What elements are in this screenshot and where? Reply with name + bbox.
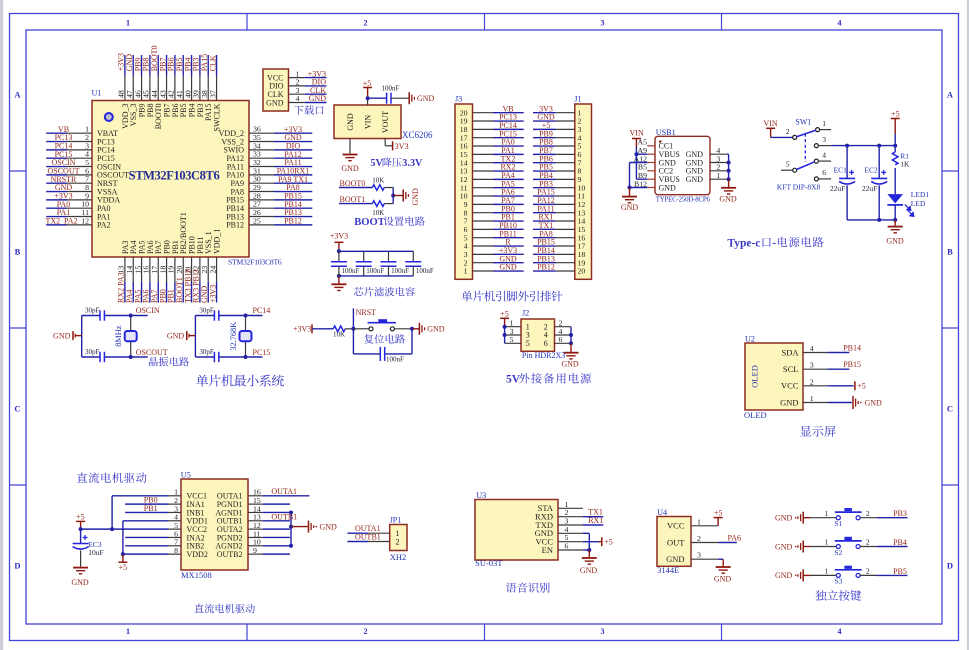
svg-text:BOOT: BOOT — [354, 217, 385, 228]
title 独立按键 — [815, 590, 861, 601]
svg-text:25: 25 — [253, 216, 261, 225]
capacitor 100nF — [338, 251, 340, 262]
wire — [504, 327, 506, 344]
svg-text:GND: GND — [167, 331, 185, 340]
junction — [587, 548, 591, 552]
wire — [195, 315, 214, 317]
wire — [493, 195, 524, 197]
wire — [570, 343, 572, 352]
svg-text:1: 1 — [126, 627, 130, 636]
svg-text:NRST: NRST — [356, 308, 377, 317]
pin 5 OSCIN — [67, 166, 92, 168]
wire — [718, 558, 723, 560]
svg-text:5V: 5V — [506, 374, 521, 386]
wire — [894, 205, 896, 220]
svg-text:U1: U1 — [92, 89, 102, 98]
wire — [385, 353, 412, 355]
svg-text:GND: GND — [714, 575, 732, 584]
resistor R1 1K — [892, 152, 898, 165]
svg-text:10uF: 10uF — [88, 548, 103, 557]
wire — [263, 495, 310, 497]
junction — [727, 177, 731, 181]
wire — [122, 521, 124, 554]
svg-text:22uF: 22uF — [862, 184, 877, 193]
svg-text:VCC: VCC — [667, 521, 685, 531]
wire — [877, 546, 908, 548]
pin 12 PA2 — [67, 224, 92, 226]
svg-text:OSCIN: OSCIN — [136, 306, 160, 315]
svg-text:24: 24 — [208, 266, 217, 274]
crystal 8MHz — [130, 316, 132, 358]
wire — [263, 536, 290, 538]
wire — [583, 541, 599, 543]
capacitor 100nF — [379, 347, 381, 361]
svg-text:5: 5 — [526, 339, 530, 348]
svg-text:+3V3: +3V3 — [293, 324, 311, 333]
wire — [810, 517, 836, 519]
wire — [191, 55, 193, 76]
junction — [845, 144, 849, 148]
wire — [305, 102, 327, 104]
wire — [263, 528, 290, 530]
svg-text:30pF: 30pF — [85, 348, 100, 356]
svg-text:S3: S3 — [834, 577, 842, 586]
wire — [391, 97, 409, 99]
pin 43 PB7 — [166, 76, 168, 101]
ground — [73, 567, 88, 569]
wire — [274, 224, 312, 226]
wire — [263, 511, 291, 513]
wire — [860, 574, 877, 576]
svg-text:1: 1 — [464, 267, 468, 276]
power port +5 — [854, 381, 856, 390]
wire — [533, 253, 556, 255]
pin 2 PC13 — [67, 141, 92, 143]
svg-text:1: 1 — [126, 19, 130, 28]
svg-text:XC6206: XC6206 — [402, 130, 433, 140]
wire — [588, 550, 590, 557]
ground — [721, 187, 736, 189]
wire — [533, 112, 556, 114]
wire — [818, 145, 831, 147]
pin 29 PA8 — [249, 191, 274, 193]
wire — [199, 282, 201, 303]
svg-text:GND: GND — [580, 566, 598, 575]
wire — [174, 282, 176, 303]
svg-text:100nF: 100nF — [391, 267, 409, 275]
pin 48 VDD_3 — [124, 76, 126, 101]
wire — [384, 187, 393, 189]
svg-text:+5: +5 — [119, 563, 128, 572]
capacitor 100nF — [412, 251, 414, 262]
junction — [893, 218, 897, 222]
svg-text:GND: GND — [427, 325, 445, 334]
wire — [194, 316, 196, 358]
wire — [718, 542, 737, 544]
wire — [493, 237, 524, 239]
svg-text:STM32F103C8T6: STM32F103C8T6 — [129, 169, 220, 183]
power port +5 — [601, 537, 603, 546]
wire — [274, 182, 312, 184]
wire — [345, 328, 353, 330]
pin 7 NRST — [67, 182, 92, 184]
wire — [493, 187, 524, 189]
wire — [125, 545, 168, 547]
svg-text:PB12: PB12 — [537, 263, 555, 272]
svg-text:U2: U2 — [745, 334, 755, 343]
pin 24 VDD_1 — [216, 257, 218, 282]
junction — [634, 152, 638, 156]
switch blade 2-1 — [797, 130, 816, 136]
wire — [46, 157, 67, 159]
pin 16 PA6 — [149, 257, 151, 282]
svg-text:SCL: SCL — [783, 364, 799, 374]
wire — [75, 335, 82, 337]
ground — [716, 566, 731, 568]
svg-text:GND: GND — [417, 94, 435, 103]
wire — [124, 282, 126, 303]
wire — [305, 93, 327, 95]
zone column ticks — [246, 14, 248, 31]
ground — [331, 283, 346, 285]
wire — [493, 178, 524, 180]
svg-text:5: 5 — [786, 160, 790, 169]
wire — [46, 174, 67, 176]
wire — [81, 528, 169, 530]
title 单片机引脚外引排针 — [462, 291, 563, 302]
junction — [289, 525, 293, 529]
pin 4 PC15 — [67, 157, 92, 159]
wire — [274, 174, 312, 176]
ground power port — [308, 521, 310, 533]
title 下载口 — [294, 105, 323, 114]
pin 20 PB2/BOOT1 — [182, 257, 184, 282]
svg-text:GND: GND — [53, 331, 71, 340]
wire — [338, 276, 340, 284]
pin 37 SWCLK — [216, 76, 218, 101]
svg-text:2: 2 — [810, 377, 814, 386]
ground power port — [852, 396, 854, 409]
svg-text:4: 4 — [810, 344, 814, 353]
svg-text:GND: GND — [659, 183, 677, 192]
svg-text:S1: S1 — [834, 519, 842, 528]
svg-text:32.768K: 32.768K — [229, 322, 238, 351]
wire — [123, 553, 169, 555]
svg-text:GND: GND — [775, 542, 793, 551]
wire — [207, 55, 209, 76]
pin 25 PB12 — [249, 224, 274, 226]
wire — [493, 120, 524, 122]
wire — [635, 147, 637, 179]
ground — [343, 154, 358, 156]
wire — [123, 520, 169, 522]
wire — [263, 503, 290, 505]
svg-text:B: B — [15, 247, 21, 257]
svg-text:8MHz: 8MHz — [114, 325, 123, 347]
svg-text:+5: +5 — [76, 512, 85, 521]
svg-text:+5: +5 — [604, 538, 613, 547]
pin 9 VDDA — [67, 199, 92, 201]
power port +3V3 — [392, 141, 394, 150]
wire — [827, 402, 851, 404]
wire — [46, 149, 67, 151]
ground — [564, 352, 579, 354]
wire — [781, 169, 793, 171]
capacitor 100nF — [388, 251, 390, 262]
wire — [493, 270, 524, 272]
wire — [533, 262, 556, 264]
svg-text:GND: GND — [320, 522, 338, 531]
wire — [533, 137, 556, 139]
junction — [289, 510, 293, 514]
wire — [195, 356, 214, 358]
wire — [46, 132, 67, 134]
pin 18 PB0 — [166, 257, 168, 282]
svg-text:GND: GND — [719, 195, 737, 204]
pin 19 PB1 — [174, 257, 176, 282]
wire — [810, 574, 836, 576]
wire — [263, 553, 290, 555]
ground — [622, 196, 637, 198]
svg-text:LED1: LED1 — [911, 190, 930, 199]
wire — [493, 245, 524, 247]
capacitor EC3 10uF — [80, 529, 82, 543]
svg-text:100nF: 100nF — [366, 267, 384, 275]
window edge strips — [0, 0, 3, 650]
svg-text:EN: EN — [542, 545, 553, 555]
wire — [312, 328, 333, 330]
svg-text:OUTB1: OUTB1 — [355, 533, 381, 542]
wire — [818, 178, 831, 180]
pin 46 PB9 — [141, 76, 143, 101]
wire — [831, 145, 895, 147]
svg-text:10K: 10K — [372, 176, 384, 184]
pin 35 VSS_2 — [249, 141, 274, 143]
svg-text:OUT: OUT — [667, 537, 685, 547]
svg-text:J3: J3 — [455, 95, 462, 104]
svg-text:GND: GND — [411, 188, 420, 206]
wire — [493, 145, 524, 147]
wire — [141, 282, 143, 303]
switch link dashed — [804, 134, 806, 163]
svg-text:PC14: PC14 — [253, 306, 271, 315]
svg-text:VCC: VCC — [781, 381, 799, 391]
wire — [636, 178, 647, 180]
svg-text:6: 6 — [822, 168, 826, 177]
wire — [583, 524, 604, 526]
wire — [385, 145, 392, 147]
svg-text:GND: GND — [71, 578, 89, 587]
svg-text:GND: GND — [499, 263, 517, 272]
wire — [629, 163, 631, 188]
wire — [533, 178, 556, 180]
wire — [394, 328, 412, 330]
wire — [274, 199, 312, 201]
wire — [347, 541, 368, 543]
svg-text:30pF: 30pF — [199, 348, 214, 356]
svg-text:CLK: CLK — [208, 55, 217, 71]
wire — [847, 219, 895, 221]
wire — [493, 212, 524, 214]
wire — [141, 55, 143, 76]
wire — [827, 352, 849, 354]
wire — [353, 353, 380, 355]
power port +5 — [122, 554, 124, 562]
svg-text:PC15: PC15 — [253, 348, 271, 357]
wire — [533, 228, 556, 230]
pin 44 BOOT0 — [157, 76, 159, 101]
svg-text:1: 1 — [825, 538, 829, 547]
svg-text:GND: GND — [780, 397, 798, 407]
junction — [110, 527, 114, 531]
wire — [132, 282, 134, 303]
svg-text:JP1: JP1 — [390, 516, 402, 525]
capacitor 30pF — [99, 352, 101, 362]
wire — [216, 55, 218, 76]
wire — [877, 574, 908, 576]
ground power port — [408, 92, 410, 104]
svg-text:3V3: 3V3 — [395, 142, 409, 151]
wire — [803, 517, 810, 519]
svg-text:VIN: VIN — [364, 115, 373, 129]
wire — [533, 220, 556, 222]
wire — [810, 546, 836, 548]
svg-text:U4: U4 — [657, 508, 667, 517]
svg-text:EC1: EC1 — [834, 166, 848, 175]
led LED1 — [887, 194, 903, 203]
svg-text:4: 4 — [296, 94, 300, 103]
wire — [274, 216, 312, 218]
svg-text:EC2: EC2 — [864, 166, 878, 175]
svg-text:1: 1 — [810, 394, 814, 403]
resistor 10K — [333, 326, 345, 332]
connector 下载口 — [263, 69, 289, 111]
wire — [263, 545, 291, 547]
junction — [410, 327, 414, 331]
wire — [820, 129, 832, 131]
junction — [79, 527, 83, 531]
svg-text:D: D — [14, 561, 20, 571]
wire — [827, 368, 849, 370]
wire — [216, 282, 218, 303]
switch blade 5-4 — [797, 162, 815, 170]
wire — [339, 187, 372, 189]
wire — [339, 203, 372, 205]
pin 36 VDD_2 — [249, 132, 274, 134]
pin 31 PA10 — [249, 174, 274, 176]
wire — [533, 203, 556, 205]
wire — [182, 282, 184, 303]
wire — [533, 195, 556, 197]
pin 33 PA12 — [249, 157, 274, 159]
wire — [339, 275, 413, 277]
wire — [493, 228, 524, 230]
svg-text:PB14: PB14 — [843, 343, 861, 352]
wire — [533, 237, 556, 239]
wire — [636, 153, 647, 155]
wire — [533, 212, 556, 214]
svg-text:U3: U3 — [476, 491, 486, 500]
svg-text:Pin HDR2X3: Pin HDR2X3 — [522, 351, 565, 360]
wire — [182, 55, 184, 76]
crystal 32.768K — [245, 316, 247, 358]
wire — [771, 136, 793, 138]
wire — [46, 191, 67, 193]
switch S3 — [836, 573, 840, 577]
wire — [274, 149, 312, 151]
wire — [722, 559, 724, 566]
svg-text:A: A — [947, 90, 954, 100]
pin 23 VSS_1 — [207, 257, 209, 282]
svg-text:TX2: TX2 — [46, 217, 61, 226]
wire — [46, 224, 67, 226]
svg-text:VIN: VIN — [763, 119, 777, 128]
wire — [392, 188, 394, 204]
ground — [888, 226, 903, 228]
svg-text:2: 2 — [866, 509, 870, 518]
svg-text:12: 12 — [81, 216, 89, 225]
svg-text:+5: +5 — [500, 310, 509, 319]
wire — [207, 282, 209, 303]
wire — [894, 168, 896, 194]
svg-text:+5: +5 — [714, 508, 723, 517]
junction — [289, 544, 293, 548]
wire — [291, 526, 309, 528]
pin 41 PB5 — [182, 76, 184, 101]
svg-text:C: C — [947, 404, 953, 414]
svg-text:1: 1 — [697, 517, 701, 526]
pin 30 PA9 — [249, 182, 274, 184]
wire — [149, 55, 151, 76]
wire — [803, 546, 810, 548]
wire — [132, 55, 134, 76]
svg-text:PB12: PB12 — [284, 217, 302, 226]
wire — [583, 532, 590, 534]
svg-text:J1: J1 — [574, 95, 581, 104]
svg-text:+3V3: +3V3 — [330, 232, 348, 241]
svg-text:8: 8 — [174, 546, 178, 555]
svg-text:LED: LED — [911, 199, 926, 208]
power port +5 — [717, 518, 719, 526]
svg-text:4: 4 — [838, 627, 842, 636]
svg-text:6: 6 — [559, 335, 563, 344]
pin-1 mark — [105, 113, 113, 121]
junction — [727, 169, 731, 173]
svg-text:BOOT1: BOOT1 — [340, 195, 366, 204]
wire — [81, 316, 83, 358]
junction — [244, 355, 248, 359]
svg-text:OUTB2: OUTB2 — [217, 550, 243, 559]
wire — [493, 220, 524, 222]
svg-text:OUTB1: OUTB1 — [271, 512, 297, 521]
pin 14 PA4 — [132, 257, 134, 282]
svg-text:GND: GND — [775, 571, 793, 580]
svg-text:PB1: PB1 — [144, 504, 158, 513]
svg-text:3.3V: 3.3V — [402, 158, 423, 169]
svg-text:SU-03T: SU-03T — [475, 558, 503, 568]
svg-text:PA2: PA2 — [97, 221, 111, 230]
svg-text:SW1: SW1 — [795, 117, 811, 126]
svg-text:+3V3: +3V3 — [208, 285, 217, 303]
pin 1 VBAT — [67, 132, 92, 134]
switch SW-PB reset button — [369, 327, 373, 331]
svg-text:STM32F103C8T6: STM32F103C8T6 — [228, 258, 282, 267]
title 单片机最小系统 — [196, 375, 284, 387]
wire — [493, 137, 524, 139]
svg-text:GND: GND — [561, 360, 579, 369]
svg-text:10K: 10K — [372, 209, 384, 217]
wire — [125, 503, 168, 505]
